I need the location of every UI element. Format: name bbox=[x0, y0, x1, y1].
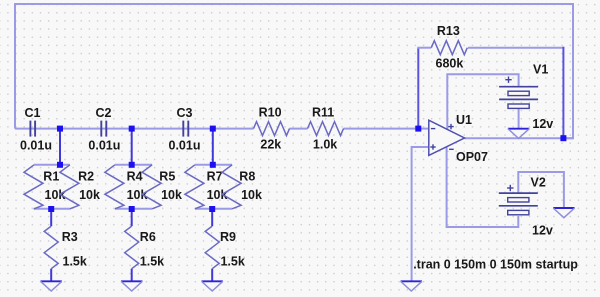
resistor R2 bbox=[60, 165, 79, 209]
resistor R11 bbox=[308, 122, 344, 136]
ground below R3 bbox=[41, 280, 62, 282]
wire lead R3 top bbox=[50, 209, 52, 226]
svg-text:C3: C3 bbox=[177, 106, 193, 120]
svg-text:.tran 0 150m 0 150m startup: .tran 0 150m 0 150m startup bbox=[413, 258, 578, 272]
svg-text:R10: R10 bbox=[259, 106, 282, 120]
capacitor C1 bbox=[29, 121, 31, 137]
wire op-amp non-inverting input to ground bbox=[412, 147, 429, 281]
svg-text:R11: R11 bbox=[312, 106, 334, 120]
node junction R4R5 top bbox=[129, 162, 135, 168]
svg-text:R4: R4 bbox=[127, 170, 143, 184]
svg-text:R6: R6 bbox=[140, 230, 156, 244]
ground below R6 bbox=[121, 280, 142, 282]
svg-text:U1: U1 bbox=[456, 113, 472, 127]
resistor R6 bbox=[125, 226, 139, 269]
svg-text:10k: 10k bbox=[161, 188, 182, 202]
wire R1R2 rail bottom bbox=[34, 208, 71, 210]
node junction op-amp output bbox=[560, 135, 566, 141]
svg-text:R2: R2 bbox=[78, 170, 94, 184]
voltage source V2 bbox=[499, 192, 538, 194]
svg-text:OP07: OP07 bbox=[456, 150, 488, 164]
svg-text:R7: R7 bbox=[207, 170, 223, 184]
node junction C3-R10 bbox=[210, 126, 216, 132]
wire lead R3 bottom to ground bbox=[50, 269, 52, 282]
svg-text:V1: V1 bbox=[533, 63, 548, 77]
wire R13 right lead bbox=[468, 47, 564, 49]
svg-text:1.5k: 1.5k bbox=[221, 255, 245, 269]
ground V1 bbox=[508, 128, 529, 130]
op-amp U1 bbox=[429, 120, 465, 155]
wire lead R6 bottom to ground bbox=[131, 269, 133, 282]
svg-text:680k: 680k bbox=[436, 57, 464, 71]
svg-text:R13: R13 bbox=[437, 24, 460, 38]
wire R4R5 rail top bbox=[115, 164, 152, 166]
wire R7R8 rail top bbox=[195, 164, 232, 166]
svg-text:0.01u: 0.01u bbox=[20, 139, 52, 153]
wire R1R2 rail top bbox=[34, 164, 70, 166]
svg-text:R1: R1 bbox=[43, 170, 59, 184]
svg-text:0.01u: 0.01u bbox=[169, 139, 201, 153]
resistor R8 bbox=[222, 165, 241, 209]
node junction R7R8 bottom bbox=[209, 206, 215, 212]
node junction inverting input bbox=[415, 126, 421, 132]
wire lead R9 top bbox=[211, 209, 213, 226]
wire lead R6 top bbox=[131, 209, 133, 226]
ground below R9 bbox=[202, 280, 223, 282]
resistor R1 bbox=[24, 165, 43, 209]
node junction R1R2 top bbox=[57, 162, 63, 168]
wire lead R9 bottom to ground bbox=[211, 269, 213, 282]
node junction R4R5 bottom bbox=[129, 206, 135, 212]
svg-text:10k: 10k bbox=[79, 188, 100, 202]
ground op-amp non-inverting input bbox=[401, 280, 422, 282]
wire V1 to op-amp V+ pin bbox=[447, 74, 518, 129]
svg-text:R3: R3 bbox=[62, 230, 78, 244]
svg-text:1.5k: 1.5k bbox=[140, 255, 164, 269]
wire op-amp output to junction bbox=[465, 137, 574, 139]
resistor R9 bbox=[205, 226, 219, 269]
node junction R7R8 top bbox=[210, 162, 216, 168]
svg-text:22k: 22k bbox=[260, 138, 281, 152]
wire R13 left lead bbox=[417, 48, 419, 129]
node junction R1R2 bottom bbox=[48, 206, 54, 212]
wire R11 to op-amp inverting input bbox=[344, 128, 429, 130]
svg-text:R5: R5 bbox=[159, 170, 175, 184]
capacitor C2 bbox=[100, 121, 102, 137]
svg-text:12v: 12v bbox=[532, 224, 553, 238]
svg-text:12v: 12v bbox=[532, 117, 553, 131]
svg-text:10k: 10k bbox=[241, 188, 262, 202]
wire R7R8 rail bottom bbox=[195, 208, 232, 210]
resistor R7 bbox=[185, 165, 204, 209]
voltage source V1 bbox=[499, 86, 538, 88]
wire R4R5 rail bottom bbox=[115, 208, 152, 210]
wire node B drop C2-C3 to R4R5 bbox=[131, 129, 133, 165]
svg-text:C2: C2 bbox=[96, 106, 112, 120]
resistor R13 bbox=[431, 41, 467, 55]
resistor R4 bbox=[105, 165, 124, 209]
svg-text:1.0k: 1.0k bbox=[313, 138, 337, 152]
wire node C drop C3-R10 to R7R8 bbox=[212, 129, 214, 165]
svg-text:R9: R9 bbox=[220, 230, 236, 244]
capacitor C3 bbox=[182, 121, 184, 137]
wire between R10 and R11 bbox=[290, 128, 308, 130]
wire op-amp V- pin to V2 bbox=[447, 147, 519, 228]
wire outer feedback loop top bbox=[15, 4, 573, 138]
svg-text:0.01u: 0.01u bbox=[88, 139, 120, 153]
ground V2 bbox=[553, 207, 574, 209]
wire node A drop C1-C2 to R1R2 bbox=[59, 129, 61, 165]
node junction C1-C2 bbox=[57, 126, 63, 132]
svg-text:V2: V2 bbox=[531, 176, 546, 190]
resistor R10 bbox=[254, 122, 290, 136]
node junction C2-C3 bbox=[129, 126, 135, 132]
svg-text:C1: C1 bbox=[25, 106, 41, 120]
wire main input line bbox=[15, 128, 254, 130]
resistor R5 bbox=[142, 165, 161, 209]
wire V2 plus lead to ground bbox=[518, 172, 564, 208]
svg-text:1.5k: 1.5k bbox=[63, 255, 87, 269]
svg-text:R8: R8 bbox=[239, 170, 255, 184]
wire V1 bottom lead to ground bbox=[518, 108, 520, 129]
resistor R3 bbox=[44, 226, 58, 269]
